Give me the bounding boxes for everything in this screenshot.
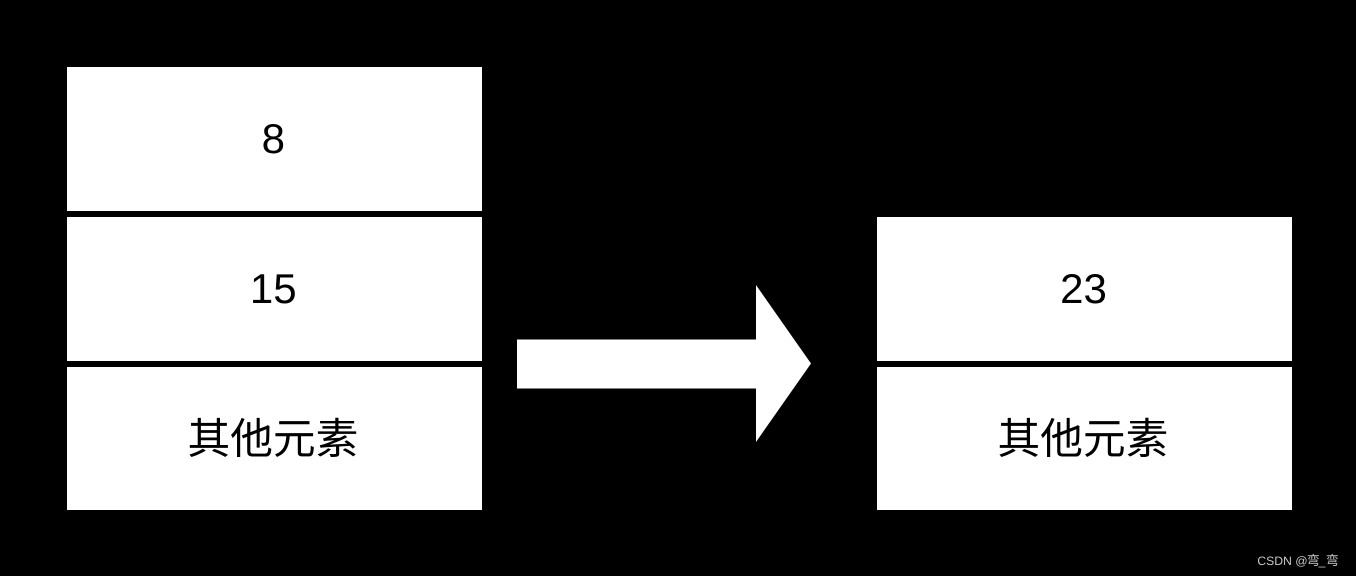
right stack top box: value 23 bbox=[877, 217, 1292, 361]
arrow pointing right between the stacks bbox=[517, 285, 811, 442]
right stack bottom box (其他元素) bbox=[877, 367, 1292, 510]
label 其他元素 in right stack bottom box bbox=[999, 418, 1166, 457]
left stack top box: value 8 bbox=[67, 67, 482, 211]
watermark CSDN @弯_弯 bbox=[1258, 554, 1338, 568]
left stack middle box: value 15 bbox=[67, 217, 482, 361]
label 其他元素 in left stack bottom box bbox=[189, 418, 356, 457]
left stack bottom box (其他元素) bbox=[67, 367, 482, 510]
